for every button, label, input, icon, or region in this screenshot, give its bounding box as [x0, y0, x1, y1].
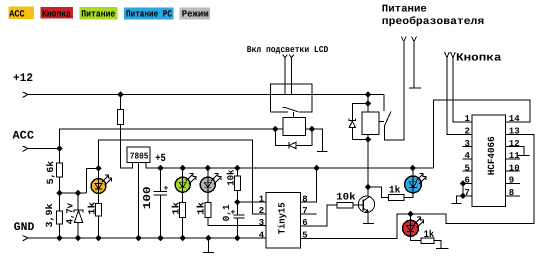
wire gray LED anode [207, 168, 209, 178]
relay1 switch blade [283, 107, 299, 112]
transistor Q1 [353, 196, 375, 212]
resistor 1k (red LED) [421, 238, 434, 243]
pin 8 label (Tiny15) [302, 194, 307, 204]
ACC input arrow [23, 146, 29, 152]
legend swatch Питание [80, 7, 118, 20]
wire +12 rail [28, 94, 384, 96]
svg-text:9: 9 [509, 176, 514, 186]
node +12 label [13, 72, 33, 85]
svg-text:Питание: Питание [382, 4, 427, 16]
pin 5 label (HCF4066) [465, 163, 470, 173]
junction green GND [180, 235, 186, 241]
pin 8 label (HCF4066) [509, 188, 514, 198]
relay2 switch blade [384, 112, 391, 127]
pin 1 label (HCF4066) [465, 114, 471, 124]
pin 11 label (HCF4066) [509, 151, 520, 161]
svg-text:+5: +5 [155, 153, 166, 165]
resistor 1k (orange LED) [96, 204, 102, 217]
wire zener2 branch upper [352, 104, 368, 121]
wire pin 5 stub (HCF4066) [463, 170, 472, 172]
svg-text:5,6k: 5,6k [45, 161, 56, 185]
wire relay2 coil top [367, 95, 369, 113]
svg-text:4: 4 [259, 230, 265, 240]
junction gray LED tap [205, 165, 211, 171]
junction red LED node [407, 211, 413, 217]
LED red (Кнопка indicator) [403, 217, 424, 236]
relay1 contact box [271, 84, 312, 112]
svg-text:1k: 1k [196, 201, 207, 215]
wire +12 to input resistor [120, 95, 122, 110]
junction pin1 node [234, 199, 240, 205]
pin 3 label (HCF4066) [465, 139, 470, 149]
svg-text:GND: GND [14, 221, 35, 234]
GND input arrow [23, 236, 29, 242]
junction zener GND [75, 235, 81, 241]
svg-text:1k: 1k [389, 185, 401, 197]
pin 4 label (HCF4066) [465, 151, 471, 161]
node GND label [14, 221, 35, 234]
wire orange LED anode [98, 168, 100, 179]
resistor 10k (pull-up) [234, 176, 240, 191]
wire relay1 diode left [275, 129, 289, 145]
pin 2 label (Tiny15) [259, 206, 264, 216]
svg-text:1k: 1k [170, 201, 181, 215]
LED green (Питание indicator) [175, 174, 196, 193]
ground symbol (main rail) [203, 238, 214, 252]
junction green LED tap [180, 165, 186, 171]
value label 5,6k [45, 161, 56, 185]
node ACC label [13, 130, 35, 143]
capacitor 100 (electrolytic) [154, 185, 169, 196]
svg-text:10: 10 [509, 163, 520, 173]
svg-text:2: 2 [465, 127, 470, 137]
pin 9 label (HCF4066) [509, 176, 514, 186]
relay2 mechanical link [379, 121, 384, 123]
svg-text:+: + [164, 185, 169, 194]
wire red LED anode [410, 214, 412, 221]
svg-text:13: 13 [509, 127, 520, 137]
junction blue LED +5 [410, 165, 416, 171]
legend swatch Питание PC [124, 8, 174, 20]
resistor 3,9k [57, 211, 63, 224]
wire orange LED cathode [98, 193, 100, 204]
junction relay1 coil right [309, 126, 315, 132]
wire pin 3 stub (HCF4066) [463, 146, 472, 148]
LED gray (Режим indicator) [200, 174, 221, 193]
wire 0,1 to GND [236, 218, 238, 238]
wire red LED cathode to 1k [411, 236, 422, 240]
zener diode (relay2) [349, 119, 356, 128]
voltage regulator 7805 [127, 147, 150, 163]
junction pin 6 (HCF4066) [460, 180, 466, 186]
junction pin8 +5 [313, 165, 319, 171]
junction +12 tap [117, 91, 123, 97]
relay2 switch top terminal [383, 95, 385, 112]
svg-text:0,1: 0,1 [221, 204, 232, 221]
wire button left to pin2 HCF4066 [447, 57, 472, 134]
svg-text:10k: 10k [336, 192, 355, 204]
wire pin 12 to pin 11 jumper [506, 147, 530, 156]
value label 3,9k [44, 203, 55, 227]
svg-text:8: 8 [509, 188, 514, 198]
junction ACC [56, 145, 62, 151]
resistor 10k (base) [337, 202, 353, 208]
wire pin 6 to base resistor [301, 205, 337, 226]
wire 1k to blue LED [404, 193, 413, 198]
ground symbol (HCF4066) [451, 203, 461, 205]
wire pin 9 stub (HCF4066) [506, 183, 520, 185]
pin 7 label (Tiny15) [302, 206, 307, 216]
svg-text:+12: +12 [13, 72, 33, 85]
pin 6 label (HCF4066) [465, 176, 470, 186]
label Питание преобразователя [382, 4, 484, 29]
wire relay1 coil right [306, 129, 323, 151]
wire green LED cathode [182, 192, 184, 203]
wire +5 to cap 100 [160, 168, 162, 192]
wire 10k to node [236, 191, 238, 216]
svg-text:10k: 10k [225, 169, 236, 186]
wire node to pin1 of Tiny15 [237, 201, 266, 203]
LED blue (Питание PC indicator) [405, 173, 427, 193]
wire blue LED to +5 rail [412, 168, 414, 177]
junction 3,9k GND [56, 235, 62, 241]
pin 5 label (Tiny15) [302, 230, 307, 240]
wire relay2 coil bottom to transistor [367, 135, 369, 197]
wire pin 5 to red LED node [301, 214, 411, 238]
wire zener to GND [77, 223, 79, 239]
pin 1 label (Tiny15) [259, 194, 265, 204]
svg-text:8: 8 [302, 194, 307, 204]
wire +5 to 10k [236, 168, 238, 176]
junction cap 100 gnd [157, 235, 163, 241]
svg-text:3: 3 [465, 139, 470, 149]
+12 input arrow [23, 92, 29, 98]
relay1 contact terminal arrows [283, 55, 294, 58]
zener diode 4,7v [74, 210, 83, 223]
relay1 coil box [283, 118, 306, 136]
value label 1k (blue LED) [389, 185, 401, 197]
button arrow right [451, 52, 456, 58]
svg-text:3,9k: 3,9k [44, 203, 55, 227]
wire green LED anode [182, 168, 184, 178]
wire ACC input [28, 148, 60, 150]
wire +5 rail [146, 163, 434, 169]
wire converter return with end bar [409, 42, 421, 88]
svg-text:ACC: ACC [9, 8, 25, 19]
wire GND rail [28, 237, 266, 239]
pin 7 label (HCF4066) [465, 188, 470, 198]
svg-text:Tiny15: Tiny15 [277, 202, 288, 234]
wire relay1 contact terminals [285, 58, 292, 95]
junction 10k top [234, 165, 240, 171]
junction relay2 +12 [365, 91, 371, 97]
svg-text:HCF4066: HCF4066 [486, 136, 497, 175]
wire green 1k to GND [182, 218, 184, 239]
pin 10 label (HCF4066) [509, 163, 520, 173]
value label 4,7v [64, 203, 75, 225]
svg-text:2: 2 [259, 206, 264, 216]
ground symbol (red LED) [436, 248, 448, 250]
junction 0,1 gnd [234, 235, 240, 241]
svg-text:7: 7 [302, 206, 307, 216]
junction zener tap [75, 190, 81, 196]
capacitor 0,1 [231, 208, 245, 218]
pin 2 label (HCF4066) [465, 127, 470, 137]
pin 4 label (Tiny15) [259, 230, 265, 240]
value label 0,1 [221, 204, 232, 221]
wire orange node to pin2 of Tiny15 [99, 140, 267, 214]
value label 100 [142, 186, 154, 209]
wire button right to pin1 HCF4066 [453, 57, 472, 122]
wire pin 6 to pin 7 (HCF4066) [463, 184, 472, 196]
value label 10k (base) [336, 192, 355, 204]
svg-text:3: 3 [259, 218, 264, 228]
junction GND symbol tap [205, 235, 211, 241]
pin 14 label (HCF4066) [509, 114, 520, 124]
svg-text:100: 100 [142, 186, 154, 209]
wire gray LED cathode [207, 192, 209, 203]
wire ACC to 5,6k [59, 149, 61, 164]
wire emitter to ground [367, 212, 369, 224]
wire zener drop [77, 193, 79, 210]
wire pins 6-7 to ground [457, 196, 463, 204]
LED orange (ACC indicator) [91, 175, 112, 194]
pin 6 label (Tiny15) [302, 218, 307, 228]
svg-text:Режим: Режим [182, 9, 209, 20]
wire pin 4 stub (HCF4066) [463, 158, 472, 160]
value label 10k (pull-up) [225, 169, 236, 186]
wire orange 1k to GND [98, 216, 100, 238]
junction collector node [365, 184, 371, 190]
wire relay2 switch to converter feed [384, 42, 403, 140]
svg-text:1k: 1k [87, 201, 98, 215]
svg-text:Кнопка: Кнопка [456, 52, 502, 64]
wire resistor to 7805 input [121, 125, 133, 169]
resistor 1k (blue LED) [389, 195, 405, 201]
legend swatch Режим [180, 8, 211, 20]
svg-text:1k: 1k [424, 229, 435, 241]
label Кнопка [456, 52, 502, 64]
wire +5 to pin14 HCF4066 [434, 100, 530, 168]
resistor (7805 input, unlabeled) [118, 110, 124, 125]
converter feed arrow right [412, 37, 417, 42]
svg-text:12: 12 [509, 139, 520, 149]
ground symbol (emitter) [363, 223, 374, 225]
svg-text:Питание: Питание [81, 9, 115, 20]
value label 1k (gray LED) [196, 201, 207, 215]
wire relay1 diode right [296, 129, 312, 145]
junction relay2 zener tap [365, 100, 371, 106]
wire pin 11 stub (HCF4066) [506, 158, 520, 160]
wire 3,9k to GND [59, 224, 61, 238]
value label 1k (red LED) [424, 229, 435, 241]
svg-text:Питание PC: Питание PC [126, 9, 172, 20]
IC U1 Tiny15 [266, 193, 301, 249]
svg-text:4: 4 [465, 151, 471, 161]
pin 13 label (HCF4066) [509, 127, 520, 137]
svg-text:1: 1 [259, 194, 265, 204]
wire divider node riser to LED net [87, 168, 99, 193]
svg-text:5: 5 [465, 163, 470, 173]
value label 1k (orange LED) [87, 201, 98, 215]
wire zener2 branch lower [352, 127, 368, 139]
svg-text:7805: 7805 [130, 152, 149, 162]
wire collector to 1k blue [368, 187, 389, 198]
button arrow left [445, 52, 450, 58]
junction 7805 gnd [135, 235, 141, 241]
legend swatch ACC [9, 7, 35, 20]
IC U2 HCF4066 [472, 115, 506, 207]
wire 7805 ground pin [138, 163, 140, 239]
flyback diode (relay1) [289, 142, 296, 148]
svg-text:преобразователя: преобразователя [382, 16, 484, 28]
relay1 mechanical link [293, 112, 295, 118]
junction pin 7 (HCF4066) [460, 193, 466, 199]
wire pin 8 stub (HCF4066) [506, 195, 520, 197]
svg-text:Вкл подсветки LCD: Вкл подсветки LCD [247, 45, 329, 55]
value label 1k (green LED) [170, 201, 181, 215]
svg-text:Кнопка: Кнопка [42, 8, 71, 19]
converter feed arrow left [401, 37, 406, 42]
node +5 label [155, 153, 166, 165]
resistor 1k (gray LED) [205, 203, 211, 218]
pin 3 label (Tiny15) [259, 218, 264, 228]
junction cap 100 top [157, 165, 163, 171]
resistor 1k (green LED) [180, 203, 186, 218]
svg-text:14: 14 [509, 114, 520, 124]
relay2 coil box [362, 112, 379, 135]
svg-text:4,7v: 4,7v [64, 203, 75, 225]
pin 12 label (HCF4066) [509, 139, 520, 149]
svg-text:11: 11 [509, 151, 520, 161]
svg-text:ACC: ACC [13, 130, 35, 143]
label Вкл подсветки LCD [247, 45, 329, 55]
junction divider node [56, 190, 62, 196]
wire cap 100 to GND [160, 195, 162, 238]
wire pin 8 to +5 rail [301, 168, 317, 202]
wire divider node horizontal [60, 192, 87, 194]
junction relay2 coil bottom [365, 136, 371, 142]
junction orange LED node [95, 165, 101, 171]
wire 5,6k to 3,9k [59, 177, 61, 211]
wire ACC riser [60, 129, 284, 149]
wire gray 1k to pin3 of Tiny15 [208, 218, 266, 226]
resistor 5,6k [57, 163, 63, 177]
legend swatch Кнопка [41, 7, 74, 19]
svg-text:1: 1 [465, 114, 471, 124]
ground symbol (relay1) [317, 150, 328, 152]
wire pin 7 stub [301, 213, 317, 215]
wire red 1k to ground [434, 241, 441, 249]
wire pin 10 stub (HCF4066) [506, 170, 520, 172]
junction relay1 coil left [272, 126, 278, 132]
junction orange GND [95, 235, 101, 241]
wire red node to HCF4066 pin13 [411, 134, 535, 223]
